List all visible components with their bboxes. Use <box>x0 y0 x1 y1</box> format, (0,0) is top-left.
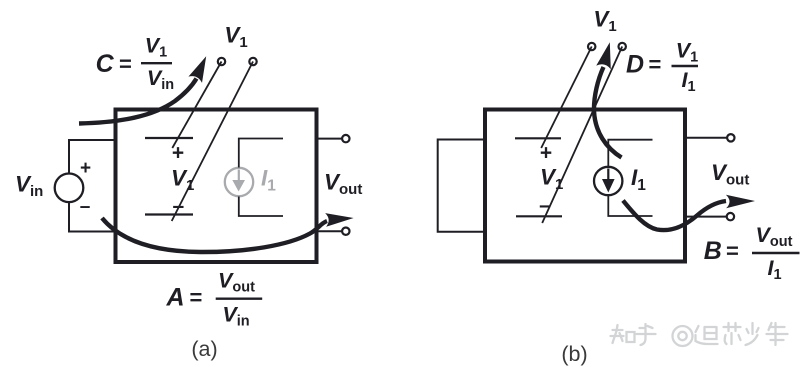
glyph xin <box>724 323 741 344</box>
svg-text:(a): (a) <box>191 337 217 361</box>
wire Vout top (a) <box>317 138 342 140</box>
glyph zhui <box>696 326 718 344</box>
glyph hu <box>637 324 656 345</box>
terminal V1 left (a) <box>218 58 225 65</box>
wire Vout bottom (a) <box>317 230 342 232</box>
svg-text:I1: I1 <box>631 165 646 194</box>
current source I1 (a) greyed <box>225 168 253 196</box>
glyph nian <box>767 323 788 345</box>
svg-text:I1: I1 <box>261 166 276 195</box>
svg-text:D: D <box>626 51 644 79</box>
probe bracket I1 bottom (b) <box>608 196 652 217</box>
input short wire loop (b) <box>438 140 485 232</box>
svg-text:=: = <box>190 285 203 310</box>
probe plate V1 top <box>145 137 193 139</box>
curved arrow D (I1 to V1) <box>594 67 622 158</box>
svg-text:V1: V1 <box>540 165 563 194</box>
wire top plate to left V1 terminal <box>172 62 221 149</box>
wire Vin top to box <box>69 140 115 174</box>
box (b) two-port network <box>485 110 685 262</box>
probe plate V1 top (b) <box>515 137 561 139</box>
voltage source Vin <box>55 174 84 203</box>
svg-text:=: = <box>119 52 132 77</box>
terminal V1 left (b) <box>588 43 595 50</box>
svg-text:Vout: Vout <box>324 170 362 199</box>
current source I1 (b) <box>594 167 622 195</box>
terminal Vout top (a) <box>342 135 349 142</box>
svg-text:+: + <box>540 142 552 165</box>
terminal Vout top (b) <box>727 134 734 141</box>
watermark zhihu @zhuixinshaonian <box>611 323 788 346</box>
terminal V1 right (a) <box>249 58 256 65</box>
curved arrow B (I1 to Vout) <box>623 201 726 231</box>
probe plate V1 bottom <box>145 213 193 215</box>
svg-text:Vin: Vin <box>147 66 174 93</box>
svg-text:Vin: Vin <box>15 172 43 201</box>
terminal Vout bottom (b) <box>727 213 734 220</box>
svg-text:A: A <box>165 284 184 312</box>
probe plate V1 bottom (b) <box>516 215 562 217</box>
svg-text:I1: I1 <box>767 256 781 283</box>
svg-text:Vout: Vout <box>756 223 793 250</box>
glyph at <box>673 326 693 346</box>
glyph shao <box>746 323 759 345</box>
svg-text:I1: I1 <box>681 68 695 95</box>
wire bottom plate to right V1 terminal <box>172 62 253 222</box>
wire Vout top (b) <box>685 137 727 139</box>
wire top plate to left V1 terminal (b) <box>541 47 592 149</box>
wire Vin bottom to box <box>69 202 115 232</box>
curved arrow C (Vin to V1) <box>79 79 197 124</box>
wire Vout bottom (b) <box>685 216 727 218</box>
svg-text:=: = <box>649 52 662 77</box>
svg-text:Vin: Vin <box>222 303 249 330</box>
svg-text:Vout: Vout <box>711 160 749 189</box>
svg-text:V1: V1 <box>224 23 247 52</box>
box (a) two-port network <box>116 110 317 263</box>
svg-text:(b): (b) <box>561 342 587 366</box>
svg-text:–: – <box>80 197 91 218</box>
svg-text:+: + <box>80 158 91 179</box>
svg-text:V1: V1 <box>676 39 698 66</box>
svg-text:V1: V1 <box>145 34 167 61</box>
probe bracket I1 top (a) <box>239 139 283 168</box>
svg-text:Vout: Vout <box>218 269 255 296</box>
glyph zhi <box>611 325 624 343</box>
svg-text:B: B <box>704 237 722 265</box>
svg-text:C: C <box>96 50 115 78</box>
probe bracket I1 bottom (a) <box>239 197 283 217</box>
terminal Vout bottom (a) <box>342 228 349 235</box>
terminal V1 right (b) <box>619 43 626 50</box>
svg-text:V1: V1 <box>593 7 616 36</box>
svg-text:=: = <box>726 239 739 264</box>
curved arrow A (Vin to Vout) <box>102 218 327 252</box>
svg-text:V1: V1 <box>171 166 194 195</box>
wire bottom plate to right V1 terminal (b) <box>542 47 622 224</box>
probe bracket I1 top (b) <box>608 140 652 167</box>
